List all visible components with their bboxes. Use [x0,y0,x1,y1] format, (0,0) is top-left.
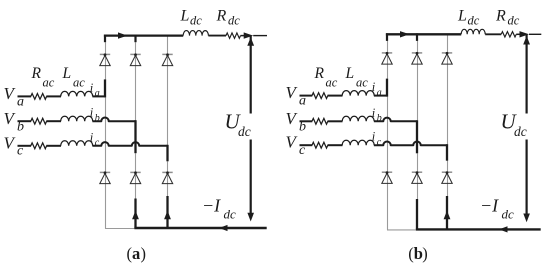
svg-text:a: a [95,88,100,99]
svg-text:dc: dc [508,14,520,28]
svg-text:c: c [377,137,382,148]
svg-text:dc: dc [514,124,527,139]
svg-text:dc: dc [238,124,251,139]
svg-text:b: b [299,120,306,135]
svg-text:c: c [299,143,306,158]
svg-text:i: i [372,106,376,120]
svg-text:−I: −I [480,195,499,215]
svg-text:b: b [95,113,100,124]
svg-text:a: a [299,94,306,109]
svg-text:L: L [457,7,467,24]
svg-text:a: a [132,244,140,263]
svg-text:i: i [372,80,376,94]
svg-text:i: i [372,130,376,144]
svg-text:i: i [90,81,94,95]
svg-text:): ) [422,244,428,263]
svg-text:ac: ac [326,75,338,89]
svg-text:dc: dc [224,207,237,222]
svg-text:i: i [90,106,94,120]
svg-text:ac: ac [356,75,368,89]
svg-text:ac: ac [73,75,85,89]
svg-text:ac: ac [43,75,55,89]
svg-text:L: L [62,65,72,82]
svg-text:R: R [495,7,506,24]
svg-text:c: c [17,144,24,159]
svg-text:a: a [377,87,382,98]
svg-text:dc: dc [502,207,515,222]
svg-text:a: a [17,94,24,109]
svg-text:L: L [345,65,355,82]
svg-text:c: c [95,138,100,149]
svg-text:−I: −I [202,195,221,215]
svg-text:): ) [141,244,147,263]
svg-text:R: R [216,7,227,24]
svg-text:i: i [90,130,94,144]
svg-text:dc: dc [190,14,202,28]
svg-text:b: b [377,113,382,124]
svg-text:R: R [314,65,325,82]
svg-text:R: R [31,65,42,82]
svg-text:L: L [180,7,190,24]
svg-text:b: b [17,119,24,134]
svg-text:dc: dc [228,14,240,28]
svg-text:dc: dc [468,14,480,28]
